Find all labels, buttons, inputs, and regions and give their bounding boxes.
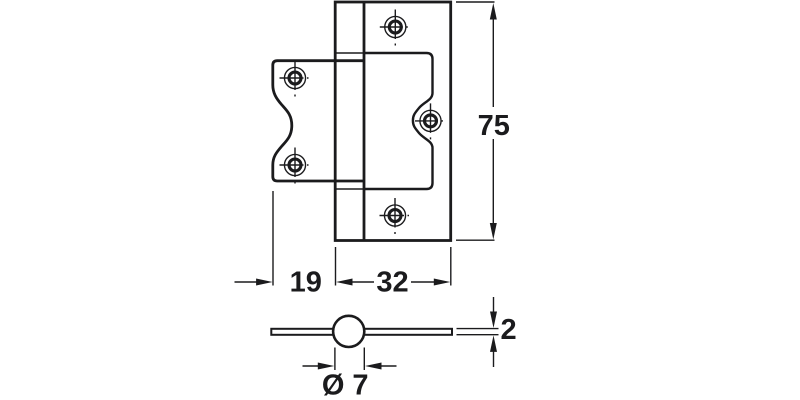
screw hole top (right leaf) <box>380 10 408 46</box>
screw hole upper (left leaf) <box>280 61 309 97</box>
dimension 75 extension line top <box>456 1 495 3</box>
dimension 19 arrow <box>235 279 273 286</box>
dimension 2 arrows <box>490 297 497 367</box>
svg-text:32: 32 <box>376 266 408 298</box>
left leaf outline <box>273 61 365 181</box>
svg-text:2: 2 <box>501 314 517 346</box>
screw hole lower (left leaf) <box>280 148 309 184</box>
dimension 2 extension lines <box>457 328 499 330</box>
dimension 75 line with arrows <box>490 3 497 240</box>
recess outline top thin segment <box>337 52 365 54</box>
dimension 32 line with arrows <box>336 279 450 286</box>
side view leaf bar <box>271 329 452 335</box>
svg-text:19: 19 <box>290 266 322 298</box>
dimension 19 extension line <box>272 191 274 286</box>
dimension diameter 7 extension line left <box>334 348 336 371</box>
hinge right leaf outer rectangle <box>335 2 451 241</box>
screw hole middle (right leaf) <box>415 103 443 139</box>
dimension diameter 7 arrows <box>303 363 397 370</box>
dimension 75 extension line bottom <box>456 239 495 241</box>
dimension 32 extension line right <box>450 247 452 286</box>
screw hole bottom (right leaf) <box>380 198 410 234</box>
side view knuckle circle <box>333 316 364 347</box>
dimension diameter 7 extension line right <box>363 348 365 371</box>
recess outline bottom thin segment <box>337 188 365 190</box>
svg-text:75: 75 <box>478 110 510 142</box>
recess outline (inner leaf silhouette) <box>364 53 433 189</box>
dimension 32 extension line left <box>335 247 337 286</box>
knuckle pivot line <box>363 2 366 241</box>
svg-text:Ø 7: Ø 7 <box>322 370 369 400</box>
